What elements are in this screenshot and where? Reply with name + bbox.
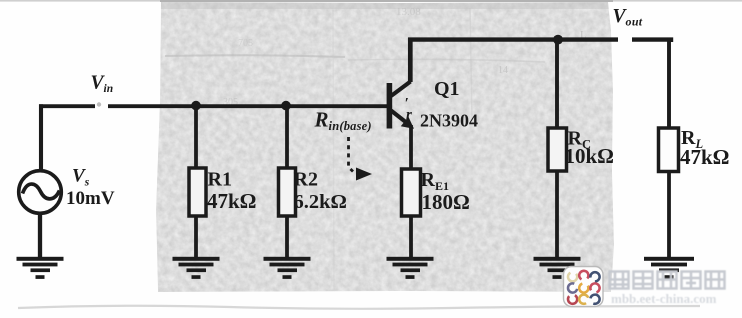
wire: RC to ground [555, 171, 559, 258]
resistor RC [548, 128, 567, 171]
svg-text:10kΩ: 10kΩ [565, 144, 615, 168]
wire: RL to ground [667, 172, 671, 259]
resistor RE1 [402, 169, 421, 216]
junction: R1 top [191, 101, 201, 111]
svg-text:mbb.eet-china.com: mbb.eet-china.com [611, 291, 717, 306]
wire: main input rail to base [108, 104, 388, 108]
svg-text:r: r [406, 107, 412, 123]
wire: source bottom to ground [38, 214, 42, 259]
label R2 6.2kΩ [294, 169, 347, 214]
ground (RC) [534, 257, 581, 279]
wire: R2 to ground [285, 216, 289, 258]
junction: RC top [553, 35, 563, 45]
wire: rail to RC [555, 39, 559, 129]
label RC 10kΩ [565, 128, 615, 169]
svg-text:14: 14 [498, 65, 508, 76]
wire: Vout rail (collector to gap) [408, 37, 618, 41]
transistor Q1 [387, 82, 414, 129]
label RL 47kΩ [680, 127, 730, 169]
svg-text:180Ω: 180Ω [422, 190, 470, 214]
ground (RL) [644, 257, 694, 279]
label R1 47kΩ [207, 169, 257, 214]
svg-text:2N3904: 2N3904 [420, 111, 478, 131]
node Vin [91, 73, 114, 107]
wire: rail to R1 [194, 106, 198, 169]
wire: Vout rail right segment to RL corner [632, 40, 671, 42]
resistor R2 [279, 168, 296, 216]
svg-text:47kΩ: 47kΩ [680, 145, 730, 169]
watermark text [610, 272, 725, 289]
wire: collector up to Vout rail [408, 38, 413, 83]
bottom scan smudge line [18, 306, 700, 309]
svg-text:705: 705 [238, 38, 253, 49]
svg-text:R2: R2 [294, 169, 318, 191]
resistor RL [659, 128, 679, 172]
wire: R1 to ground [194, 216, 198, 258]
wire: source top to Vin rail [39, 104, 43, 171]
label r'e [405, 96, 413, 124]
label RE1 180Ω [421, 169, 470, 214]
svg-text:R1: R1 [208, 169, 232, 191]
label Vs 10mV [66, 166, 115, 209]
ground (source) [17, 257, 64, 279]
arrow: Rin(base) looking into base [349, 137, 373, 181]
wire: emitter to RE1 [409, 125, 413, 170]
watermark logo [564, 267, 604, 307]
resistor R1 [189, 168, 206, 216]
ground (RE1) [387, 257, 434, 279]
wire: corner down to RL [667, 38, 671, 130]
svg-text:47kΩ: 47kΩ [207, 189, 257, 213]
wire: RE1 to ground [409, 216, 413, 258]
svg-text:Q1: Q1 [434, 78, 460, 100]
svg-text:10mV: 10mV [66, 188, 115, 209]
svg-text:13.08: 13.08 [396, 6, 421, 18]
top scan edge line [0, 0, 742, 2]
voltage source Vs [19, 171, 62, 214]
wire: Vin rail left segment [39, 104, 95, 108]
ground (R2) [264, 257, 311, 279]
wire: rail to R2 [285, 106, 289, 169]
svg-text:6.2kΩ: 6.2kΩ [294, 191, 347, 213]
label Q1 2N3904 [420, 78, 478, 131]
junction: R2 top [281, 101, 291, 111]
ground (R1) [173, 257, 220, 279]
